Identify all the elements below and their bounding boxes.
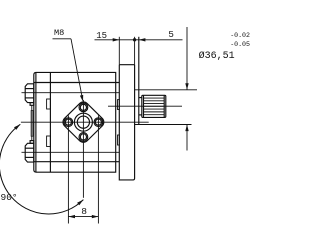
lower port axis line <box>22 151 120 153</box>
rear cover seam <box>49 72 51 172</box>
arc arrowhead at top end <box>14 124 20 130</box>
bolt hole E <box>94 118 103 127</box>
svg-text:-0.02: -0.02 <box>230 32 250 39</box>
plain shaft neck <box>139 97 142 99</box>
arrowhead right of dim 8 <box>92 215 99 218</box>
body internal line upper <box>34 82 120 84</box>
vertical centerline through bolt holes <box>82 100 84 198</box>
body internal line lower <box>34 161 120 163</box>
side port boss rect right upper <box>118 100 120 110</box>
hex port plug upper <box>25 84 34 103</box>
extension/edge line at x134.6 <box>134 37 136 65</box>
svg-text:M8: M8 <box>54 28 64 38</box>
svg-text:8: 8 <box>81 206 87 217</box>
flange plate <box>119 65 134 180</box>
svg-text:15: 15 <box>96 31 107 41</box>
arrowhead down <box>185 83 188 90</box>
M8 leader arrowhead <box>80 95 83 102</box>
arrowhead left of dim 8 <box>68 215 75 218</box>
side port boss rect left upper <box>47 99 51 109</box>
side port boss rect right lower <box>118 135 120 145</box>
svg-text:-0.05: -0.05 <box>230 41 250 48</box>
left face groove bar (gray) <box>31 111 33 137</box>
arc arrowhead at right end <box>77 200 83 206</box>
bolt hole W <box>64 118 73 127</box>
M8 leader shelf <box>53 38 72 40</box>
splined shaft block <box>142 95 166 117</box>
extension line at x119.3 <box>118 37 120 65</box>
dim extension line W bolt <box>67 116 69 224</box>
svg-text:5: 5 <box>168 29 174 40</box>
spline teeth lines <box>144 98 165 115</box>
M8 leader line <box>71 39 83 100</box>
upper port axis line <box>22 92 120 94</box>
dot terminator <box>133 38 136 41</box>
center shaft hole circles <box>77 116 89 128</box>
bolt hole S <box>79 133 88 142</box>
arrowhead up <box>185 125 188 132</box>
pump body outline (side view) <box>34 72 116 172</box>
body inner left face line <box>35 72 37 172</box>
svg-text:Ø36,51: Ø36,51 <box>199 50 235 62</box>
mounting spigot bottom edge + extension line <box>135 124 192 126</box>
front-view flange rounded diamond <box>63 102 104 142</box>
shaft axis centerline <box>108 105 182 107</box>
hex port plug lower <box>25 143 34 162</box>
arrowhead 5 pointing left <box>139 38 146 41</box>
side port boss rect left lower <box>47 136 51 147</box>
mounting spigot top edge + extension line <box>135 89 197 91</box>
svg-text:90°: 90° <box>1 192 18 203</box>
dimension 15/5 line <box>95 39 183 41</box>
horizontal centerline <box>21 121 149 123</box>
groove step lines <box>31 105 33 140</box>
90 degree arc <box>0 124 83 214</box>
dia 36.51 dim vertical upper <box>186 27 188 90</box>
dia 36.51 dim vertical lower <box>186 125 188 151</box>
upper plug washer <box>30 103 34 106</box>
spigot face vertical <box>138 37 140 125</box>
bolt hole N <box>79 103 88 112</box>
dimension 8 line <box>68 216 98 218</box>
arrowhead 15 pointing right <box>113 38 120 41</box>
dim extension line E bolt <box>97 116 99 224</box>
lower plug washer <box>30 141 34 144</box>
